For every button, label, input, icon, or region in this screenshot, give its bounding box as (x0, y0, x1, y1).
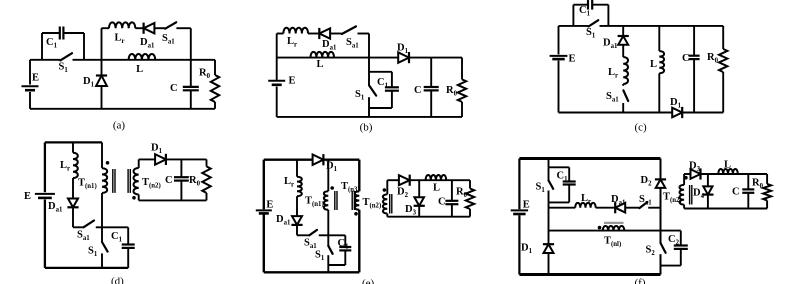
svg-text:E: E (523, 200, 530, 211)
svg-text:E: E (24, 191, 31, 202)
svg-text:(e): (e) (362, 278, 375, 284)
svg-text:(c): (c) (634, 122, 647, 134)
svg-text:L: L (650, 59, 657, 70)
svg-text:L: L (724, 160, 731, 171)
svg-text:(a): (a) (113, 120, 126, 132)
svg-text:C: C (165, 175, 173, 186)
svg-text:L: L (433, 183, 440, 194)
svg-text:C: C (732, 187, 740, 198)
svg-text:E: E (569, 53, 576, 64)
svg-text:C: C (438, 197, 446, 208)
svg-text:(f): (f) (635, 277, 646, 284)
svg-text:L: L (316, 59, 323, 70)
svg-text:E: E (32, 73, 39, 84)
svg-text:E: E (289, 75, 296, 86)
svg-text:E: E (266, 199, 273, 210)
svg-text:(b): (b) (360, 122, 373, 134)
svg-text:C: C (682, 53, 690, 64)
svg-text:L: L (136, 64, 143, 75)
svg-text:C: C (414, 85, 422, 96)
svg-text:(d): (d) (111, 276, 124, 284)
svg-text:C: C (170, 83, 178, 94)
